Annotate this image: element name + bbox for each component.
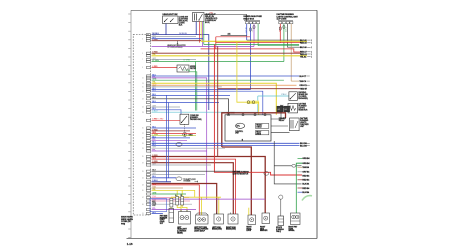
wire LT GRN loop <box>152 60 284 111</box>
label lamp L5 <box>226 227 236 231</box>
labels C739 wire colours <box>279 28 287 33</box>
wire BLU loop lower left <box>150 199 167 214</box>
svg-text:GRY B4: GRY B4 <box>302 171 310 174</box>
relay K1 headlight relay <box>193 13 205 22</box>
svg-text:LT BLU: LT BLU <box>281 94 287 96</box>
lamp L2 headlight left <box>179 210 191 224</box>
lamp L7 turn right <box>262 213 270 224</box>
wire RED lower 1 <box>152 159 236 214</box>
switch S3 parking brake switch <box>289 92 297 101</box>
label dimmer relay <box>279 118 287 122</box>
wire BLU mid 4 <box>152 102 220 104</box>
wire PNK lower a <box>152 197 190 199</box>
labels BLU lower terminations <box>300 143 310 147</box>
wire YEL lamp bus <box>171 197 221 215</box>
label main harness <box>121 216 133 226</box>
lamp L9 right marker <box>291 213 301 225</box>
page footer label 1-16 <box>127 242 133 246</box>
wire DK RED module feed <box>222 113 286 215</box>
labels right mid terminations <box>299 76 309 87</box>
svg-text:LT GRN: LT GRN <box>184 70 191 72</box>
wire BLK module links <box>271 112 302 184</box>
svg-text:GRN B4: GRN B4 <box>302 157 310 160</box>
wire GRN bus 1 <box>204 44 299 46</box>
connector C739 daytime running light <box>277 13 299 24</box>
lamp L6 headlight right <box>248 208 256 225</box>
lamp L8 inline with connector <box>278 195 284 226</box>
wire DK BLUE pin to riser <box>152 22 209 111</box>
wire PPL lower 2 <box>152 198 266 200</box>
wire D RED mid to label <box>218 89 308 91</box>
wire BLU to dimmer <box>152 110 182 114</box>
label lamp L2 <box>177 227 188 235</box>
wire DK RED riser <box>217 46 219 156</box>
svg-text:LT GRN: LT GRN <box>184 60 191 62</box>
switch S2 dimmer passing switch <box>180 114 189 124</box>
wire L RED to dimmer <box>152 119 181 121</box>
module U1 daytime running light control unit <box>225 114 271 141</box>
wire GRY short mid <box>152 106 181 108</box>
connector C100 pin boxes and wire colour labels <box>142 33 160 215</box>
wire RED bus upper <box>216 37 301 49</box>
wire GRY mid <box>152 86 222 88</box>
label headlight switch terminals <box>179 16 189 26</box>
wire RED upper right <box>216 36 250 38</box>
label module pins <box>227 111 235 114</box>
wire GRY upper <box>152 36 197 38</box>
wire BLK mid <box>152 99 229 115</box>
connector oval C553 <box>264 172 269 176</box>
svg-text:GRN B4: GRN B4 <box>302 162 310 165</box>
wire BLU risers mid <box>167 95 169 181</box>
svg-text:RED A5: RED A5 <box>300 42 308 45</box>
wire LT GRN filter out <box>184 70 197 111</box>
svg-text:BLK A9: BLK A9 <box>300 46 308 49</box>
svg-text:RED A3: RED A3 <box>300 53 308 56</box>
wire D BLU lower <box>152 181 172 183</box>
wire BLK A21 <box>221 33 247 36</box>
svg-text:TAN C9: TAN C9 <box>299 80 306 83</box>
svg-text:A21: A21 <box>228 33 231 36</box>
svg-text:HEADLTCHECK: HEADLTCHECK <box>256 124 262 129</box>
labels module pin stack <box>298 157 311 194</box>
svg-text:L RED: L RED <box>159 119 165 121</box>
fuse F2 <box>181 195 184 205</box>
wire D RED lower a <box>152 130 191 132</box>
wire PPL bus <box>152 45 255 47</box>
lamp L5 high beam right <box>228 213 238 225</box>
wire BLU lower c <box>152 137 191 139</box>
svg-text:RED B4: RED B4 <box>302 187 310 190</box>
resistor R2 daytime light resistor <box>280 103 298 113</box>
wire BLK lower <box>152 170 241 172</box>
svg-text:DRL: DRL <box>236 126 240 128</box>
label lamp L6 <box>246 226 252 232</box>
wire PPL lower 3 <box>152 209 197 211</box>
wire BLU long to label <box>152 75 300 77</box>
wire GRY lower 4 <box>152 203 193 205</box>
label headlight check relay <box>300 117 309 128</box>
switch S1 headlight switch <box>163 13 179 23</box>
svg-text:RIGHT HIGHBEAM (65W): RIGHT HIGHBEAM (65W) <box>226 227 236 231</box>
wire BLK relay feed <box>204 13 247 22</box>
svg-text:RED B4: RED B4 <box>302 175 310 178</box>
label lamp L7 <box>260 226 268 232</box>
labels right bus terminations <box>300 39 312 59</box>
svg-text:G2: G2 <box>278 109 280 111</box>
resistor R1 noise filter <box>152 65 197 72</box>
svg-text:BLK A2: BLK A2 <box>300 39 308 42</box>
label lamp L3 <box>194 227 209 233</box>
label dimmer switch <box>190 115 202 121</box>
svg-text:TAN B4: TAN B4 <box>302 166 309 169</box>
wire GRN lamp 9 riser <box>296 163 302 213</box>
svg-text:1-16: 1-16 <box>127 242 133 246</box>
svg-text:BLK B4: BLK B4 <box>302 183 310 186</box>
svg-text:RED B7: RED B7 <box>300 89 308 91</box>
wire ORG long <box>152 84 297 86</box>
wire YEL lower bus <box>152 190 195 211</box>
connector C100 main harness (dashed) <box>133 35 150 216</box>
wire BLU upper <box>152 38 204 40</box>
wire BLK label feed <box>247 39 301 41</box>
wire DK RED bus <box>152 52 301 54</box>
wire relay output drops <box>200 22 204 47</box>
label daytime running resistor <box>233 171 250 176</box>
wire RED lower 2 <box>152 185 200 215</box>
svg-text:BLU C7: BLU C7 <box>299 76 307 78</box>
wire DK RED bus 2 <box>152 157 266 214</box>
wire DK RED bus 4 <box>152 184 217 215</box>
highlight wire segment <box>237 41 259 115</box>
svg-text:BLU B4: BLU B4 <box>302 191 310 194</box>
wire BLU lower long 1 <box>152 142 300 144</box>
wire RED riser long <box>214 45 302 176</box>
wire GRN bus 2 <box>258 45 299 47</box>
fuse F1 <box>175 194 178 205</box>
wire YEL GRN lower b <box>152 135 197 137</box>
wire BLU mid 3 <box>152 94 231 96</box>
lamp L4 high beam left <box>214 213 224 225</box>
label lamp L8 <box>276 227 284 233</box>
wire PPL lower a <box>152 140 188 142</box>
fuse F3 inline <box>170 198 173 207</box>
wire GRN lower <box>152 193 187 195</box>
svg-text:BLU B6: BLU B6 <box>300 145 308 147</box>
wire BLU lower a <box>152 127 197 129</box>
lamp L1 side marker <box>169 209 174 223</box>
wire GRY lower 2 <box>152 164 212 166</box>
wire YEL bus 2 <box>152 55 308 57</box>
wire YEL bus upper <box>201 40 307 42</box>
label daytime light resistor <box>298 103 308 112</box>
wire TAN lower <box>152 187 184 189</box>
svg-text:ORG C2: ORG C2 <box>299 85 307 87</box>
svg-text:RED B4: RED B4 <box>302 179 310 182</box>
svg-text:YEL A1: YEL A1 <box>300 55 307 58</box>
wire PNK lower b <box>152 200 191 202</box>
wire BLU to connector oval <box>152 177 199 183</box>
wire GRY lower 1 <box>152 147 226 149</box>
wire GRN mid <box>152 79 284 81</box>
lamp L3 front turn left <box>196 213 209 224</box>
marker annotation green <box>302 196 312 201</box>
wire BLU pair <box>152 90 263 115</box>
wire PPL lower 1 <box>152 150 207 152</box>
ground G401 <box>183 124 193 136</box>
svg-text:G1: G1 <box>284 109 286 111</box>
wire DK RED adjuster branch <box>152 41 202 49</box>
wire drops from C739 <box>279 24 301 81</box>
svg-text:DAYTIME RUNNINGLIGHTS RESISTOR: DAYTIME RUNNINGLIGHTS RESISTOR <box>233 171 250 176</box>
wire BLU lower long 2 <box>152 145 300 147</box>
wire drops from C736 <box>247 24 258 90</box>
label lamp L9 <box>288 226 298 232</box>
wire LT BLU to parking switch <box>152 94 289 112</box>
connector C736 dash fuse box <box>243 15 262 33</box>
connector C740 black <box>277 106 290 112</box>
wire RED bus lower <box>201 49 301 52</box>
connector oval C554 <box>292 164 296 167</box>
wire PPL mid riser <box>152 78 207 199</box>
relay K2 headlight check relay <box>290 118 300 131</box>
wire YEL mid <box>152 83 277 115</box>
wire DK RED bus 3 <box>152 163 234 214</box>
label headlight relay <box>205 13 218 24</box>
svg-text:DK BLUE: DK BLUE <box>179 33 188 35</box>
wire RED lower a <box>152 133 197 135</box>
wire GRY lower 3 <box>152 174 206 176</box>
label lamp L4 <box>212 227 222 231</box>
wire GRY short <box>152 58 197 60</box>
wire TAN stub <box>291 80 299 82</box>
label lamp L1 <box>160 215 168 225</box>
connector oval on blue pair <box>176 142 182 146</box>
label parking brake switch <box>298 91 308 100</box>
